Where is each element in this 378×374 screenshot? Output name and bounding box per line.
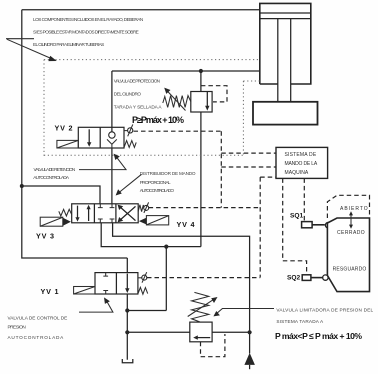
- distributor label text: [140, 171, 196, 193]
- spring right of YV4: [138, 205, 144, 212]
- svg-text:PRESION: PRESION: [8, 325, 27, 330]
- wire: drop from bottom-port line to YV2 top: [111, 71, 113, 127]
- node: junction dot on cylinder bottom line: [199, 69, 203, 73]
- dashed drop from control box to SQ1: [303, 178, 305, 221]
- limit switch SQ1: [290, 213, 331, 228]
- wire: tank drop from return junction: [165, 247, 167, 311]
- node: junction dot pressure line at relief: [248, 330, 252, 334]
- svg-text:DISTRIBUIDOR DE MANDO: DISTRIBUIDOR DE MANDO: [140, 171, 196, 176]
- spring of YV1: [138, 287, 148, 294]
- dashed pilot line from YV4: [149, 207, 261, 209]
- wire: bottom relief cross line: [127, 331, 249, 333]
- node: junction dot at YV1 outlet: [125, 308, 129, 312]
- svg-text:VALVULA DE CONTROL DE: VALVULA DE CONTROL DE: [8, 315, 68, 320]
- tank symbol: [122, 359, 133, 363]
- control box: machine control system: [276, 147, 328, 178]
- cylinder load plate: [253, 102, 318, 125]
- valve YV1: 2/2 pressure control valve body: [95, 273, 138, 294]
- wire: left vertical run down to bottom corner then right to YV1 branch: [22, 10, 128, 258]
- svg-text:AUTOCONTROLADA: AUTOCONTROLADA: [33, 175, 70, 180]
- dashed pilot riser at x221: [220, 131, 222, 207]
- wire: YV1 outlet link: [127, 310, 166, 312]
- adjustment arrow of system relief valve: [188, 297, 218, 317]
- svg-text:VALVULA DE RETENCION: VALVULA DE RETENCION: [34, 167, 76, 172]
- guard plate dashed (open position): [327, 195, 369, 218]
- right cell crossed arrows of 4/3 valve: [118, 205, 136, 223]
- system relief label leader: [213, 309, 274, 317]
- system relief setting text: [275, 331, 362, 341]
- label valve YV2: [55, 124, 74, 133]
- solenoid YV3: [40, 217, 71, 226]
- svg-text:YV 3: YV 3: [36, 231, 55, 240]
- svg-text:YV 4: YV 4: [177, 220, 196, 229]
- pilot symbol of YV4: [144, 202, 149, 213]
- node: junction dot on tank return: [164, 245, 168, 249]
- label valve YV1: [41, 287, 60, 296]
- svg-text:MAQUINA: MAQUINA: [285, 170, 309, 176]
- solenoid YV4: [139, 216, 169, 225]
- svg-text:SI ES POSIBLE ESTAR MONTADOS D: SI ES POSIBLE ESTAR MONTADOS DIRECTAMENT…: [33, 30, 139, 35]
- svg-text:DEL CILINDRO: DEL CILINDRO: [114, 92, 142, 97]
- svg-text:LOS COMPONENTES INCLUIDOS EN E: LOS COMPONENTES INCLUIDOS EN EL RAYADO, …: [33, 17, 143, 22]
- node: junction dot on left run at branch: [20, 184, 24, 188]
- svg-text:AUTOCONTROLADA: AUTOCONTROLADA: [8, 335, 65, 340]
- svg-text:SQ1: SQ1: [290, 213, 304, 220]
- solenoid of YV2: [57, 140, 78, 148]
- centre cell blocked ports of 4/3 valve: [98, 204, 115, 223]
- svg-text:PROPORCIONAL: PROPORCIONAL: [140, 180, 171, 185]
- pressure control label leader: [79, 297, 113, 312]
- svg-text:SISTEMA TARADA A: SISTEMA TARADA A: [276, 319, 324, 324]
- dashed link to control box middle: [221, 166, 275, 168]
- dashed pilot line from YV2: [134, 130, 222, 132]
- distributor label leader: [116, 174, 142, 195]
- guard labels ABIERTO / CERRADO / RESGUARDO: [333, 206, 368, 272]
- dashed riser at x260: [259, 177, 261, 277]
- spring of system relief valve: [192, 292, 209, 322]
- pressure source triangle (pump): [244, 353, 255, 369]
- check valve label text: [33, 167, 75, 180]
- svg-text:SQ2: SQ2: [287, 274, 301, 281]
- dashed pilot line from YV1: [147, 277, 260, 279]
- svg-text:CERRADO: CERRADO: [337, 230, 365, 236]
- svg-text:VALVULA LIMITADORA DE PRESION: VALVULA LIMITADORA DE PRESION DEL: [276, 307, 373, 312]
- dashed drop from control box to SQ2: [283, 178, 307, 274]
- label valve YV3: [36, 231, 55, 240]
- svg-text:P máx<P ≤ P máx + 10%: P máx<P ≤ P máx + 10%: [275, 331, 362, 341]
- pilot symbol of YV1: [138, 272, 147, 283]
- svg-text:ABIERTO: ABIERTO: [340, 206, 368, 212]
- pilot dashed loop of protection valve: [201, 86, 227, 102]
- spring left of YV3: [59, 209, 72, 216]
- wire: cylinder bottom-port line: [112, 70, 260, 72]
- adjustment arrow of protection valve: [164, 88, 185, 111]
- wire: YV2 bottom to proportional valve port B: [111, 148, 113, 204]
- wire: tank return from valve port T: [101, 223, 201, 247]
- cylinder: body, piston, rod: [260, 3, 311, 101]
- pilot dashed loop of system relief valve: [201, 334, 225, 357]
- dashed link to control box upper: [221, 152, 275, 154]
- guard plate solid (closed position): [327, 218, 369, 292]
- note leader arrow to rayado corner: [6, 39, 57, 61]
- svg-text:AUTOCONTROLADO: AUTOCONTROLADO: [140, 188, 175, 193]
- svg-text:EL CILINDRO PARA ELIMINAR TUBE: EL CILINDRO PARA ELIMINAR TUBERIAS: [33, 42, 105, 47]
- svg-text:YV 1: YV 1: [41, 287, 60, 296]
- svg-text:SISTEMA DE: SISTEMA DE: [285, 152, 317, 158]
- spring of protection valve: [163, 96, 191, 108]
- system relief label text: [276, 307, 373, 323]
- svg-text:TARADA Y SELLADA A: TARADA Y SELLADA A: [114, 104, 163, 109]
- svg-text:MANDO DE LA: MANDO DE LA: [285, 161, 318, 167]
- pressure control valve label text: [8, 315, 68, 340]
- wire: branch from left run to valve port A: [22, 186, 100, 204]
- wire: relief drain line through protection valve: [200, 71, 202, 247]
- valve YV2: 2/2 poppet valve body: [78, 127, 124, 148]
- wire: pressure line from valve port P to pump riser: [113, 223, 250, 354]
- svg-text:P≥Pmáx + 10%: P≥Pmáx + 10%: [132, 115, 184, 125]
- relief valve: system pressure limiter body: [190, 322, 212, 342]
- relief valve: cylinder protection valve body: [191, 92, 212, 113]
- pilot symbol of YV2: [124, 124, 133, 136]
- rayado dotted outline (mount-on-cylinder zone): [44, 60, 260, 156]
- spring of YV2: [124, 141, 136, 148]
- valve YV3/YV4: 4/3 proportional directional valve body: [72, 204, 139, 223]
- limit switch SQ2: [287, 274, 328, 281]
- solenoid YV1: [74, 287, 95, 295]
- wire: YV1 line down to tank: [126, 258, 128, 360]
- label valve YV4: [177, 220, 196, 229]
- check valve label leader: [79, 154, 126, 170]
- svg-text:VALVULA DE PROTECCION: VALVULA DE PROTECCION: [114, 79, 161, 84]
- svg-text:YV 2: YV 2: [55, 124, 74, 133]
- left cell arrows of 4/3 valve: [75, 205, 90, 222]
- note text block top-left: [33, 17, 143, 47]
- wire: top supply line from left riser to cylinder cap port: [22, 9, 260, 11]
- guard motion double arrow: [349, 211, 353, 229]
- protection valve setting text: [132, 115, 184, 125]
- protection valve label text: [114, 79, 163, 110]
- svg-text:RESGUARDO: RESGUARDO: [333, 267, 367, 273]
- dashed link to control box lower: [260, 176, 276, 178]
- node: junction dot tank line at relief: [125, 330, 129, 334]
